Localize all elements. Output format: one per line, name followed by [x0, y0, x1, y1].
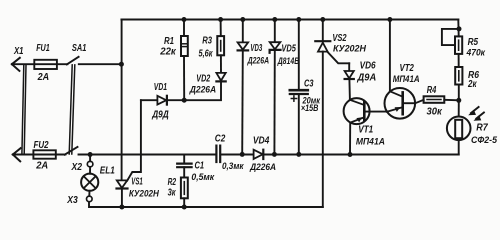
resistor R5 variable: [442, 20, 462, 54]
svg-text:VD6: VD6: [360, 61, 376, 72]
svg-text:VS1: VS1: [131, 176, 143, 187]
wire riser bottom rail to mid rail: [322, 154, 324, 207]
svg-text:5,6к: 5,6к: [199, 48, 214, 59]
transistor VT2: [385, 20, 424, 119]
wire cord pair left: [22, 65, 26, 154]
svg-text:×15В: ×15В: [301, 103, 319, 114]
wire mid rail left of C2: [13, 154, 66, 156]
svg-text:0,5мк: 0,5мк: [191, 172, 215, 183]
wire bottom rail: [89, 202, 323, 207]
thyristor VS1: [117, 180, 128, 207]
node R5 tap: [457, 26, 462, 31]
resistor R2: [181, 178, 188, 208]
svg-text:Х1: Х1: [13, 46, 24, 57]
svg-text:FU1: FU1: [36, 43, 50, 54]
svg-text:Д226А: Д226А: [189, 84, 217, 95]
svg-text:VS2: VS2: [332, 33, 347, 44]
wire mid rail after bottom switch: [79, 154, 216, 156]
connector X1 arrow: [12, 58, 20, 71]
node VD5 bottom: [272, 152, 277, 157]
svg-text:МП41А: МП41А: [356, 136, 385, 147]
svg-text:КУ202Н: КУ202Н: [333, 43, 367, 54]
svg-text:22к: 22к: [159, 47, 176, 58]
zener VD5: [270, 20, 281, 155]
svg-text:SA1: SA1: [72, 43, 87, 54]
node VD3 bottom: [240, 152, 245, 157]
wire top row after switch: [79, 63, 122, 65]
photoresistor R7: [447, 100, 484, 154]
svg-text:EL1: EL1: [100, 166, 115, 177]
svg-text:VD1: VD1: [154, 82, 167, 93]
wire mid rail right of C2: [221, 154, 459, 156]
capacitor C3: [290, 20, 308, 155]
connector X3 socket: [87, 196, 93, 202]
svg-text:VT1: VT1: [358, 124, 373, 135]
svg-text:VT2: VT2: [400, 63, 415, 74]
resistor R1: [181, 20, 188, 101]
lamp EL1: [81, 155, 98, 197]
svg-text:Д9Д: Д9Д: [151, 109, 168, 120]
node C3 bottom: [296, 152, 301, 157]
svg-text:2А: 2А: [35, 161, 48, 172]
diode VD3: [238, 20, 249, 155]
diode VD6: [345, 63, 354, 100]
diode VD2: [184, 73, 226, 100]
svg-text:3к: 3к: [168, 188, 177, 199]
svg-text:2А: 2А: [37, 72, 49, 83]
svg-text:С3: С3: [304, 79, 314, 90]
node VT2 collector top: [387, 17, 392, 22]
capacitor C2: [216, 146, 220, 162]
svg-text:R3: R3: [202, 36, 212, 47]
node R1 top: [182, 17, 187, 22]
svg-text:Д9А: Д9А: [357, 73, 377, 84]
svg-text:R4: R4: [427, 85, 437, 96]
node VD3 top: [240, 17, 245, 22]
svg-text:R7: R7: [476, 123, 488, 134]
svg-text:СФ2-5: СФ2-5: [471, 135, 498, 146]
wire top rail: [121, 19, 458, 21]
node VD1 R1: [182, 98, 187, 103]
svg-text:С2: С2: [215, 134, 226, 145]
svg-text:Х2: Х2: [71, 162, 83, 173]
thyristor VS2: [315, 20, 349, 155]
transistor VT1: [344, 98, 387, 154]
diode VD4: [254, 150, 264, 159]
svg-text:VD3: VD3: [250, 43, 262, 54]
switch SA1 top pole: [67, 57, 79, 65]
diode VD1: [141, 96, 184, 105]
svg-text:Х3: Х3: [66, 195, 78, 206]
svg-text:470к: 470к: [466, 48, 486, 59]
node VD5 top: [272, 17, 277, 22]
node SA1 frame: [119, 62, 124, 67]
resistor R6: [455, 54, 462, 100]
fuse FU1: [34, 60, 57, 69]
wire left frame vertical: [121, 20, 123, 181]
connector X2 socket: [87, 161, 93, 167]
resistor R4: [424, 96, 459, 103]
svg-text:R5: R5: [468, 37, 479, 48]
svg-text:2к: 2к: [467, 79, 477, 90]
svg-text:С1: С1: [195, 161, 205, 172]
connector X2 arrow: [13, 148, 21, 161]
svg-text:Д226А: Д226А: [249, 162, 276, 173]
svg-text:0,3мк: 0,3мк: [222, 161, 245, 172]
svg-text:R2: R2: [168, 177, 177, 188]
node C3 top: [296, 17, 301, 22]
svg-text:R1: R1: [164, 36, 174, 47]
wire top mains row: [12, 63, 68, 65]
node R2 bottom: [182, 205, 187, 210]
svg-text:VD5: VD5: [281, 43, 296, 54]
wire VD1 to VS1 gate: [127, 100, 141, 180]
node dots: [88, 17, 462, 210]
fuse FU2: [33, 150, 55, 158]
svg-text:VD4: VD4: [253, 135, 270, 146]
svg-text:Д226А: Д226А: [247, 55, 269, 66]
node R4 R6 R7: [456, 98, 461, 103]
svg-text:МП41А: МП41А: [393, 74, 420, 85]
svg-text:КУ202Н: КУ202Н: [129, 188, 160, 199]
wire cord pair right (SA1 link): [69, 65, 75, 154]
node R3 top: [218, 17, 223, 22]
node VS2 top: [320, 17, 325, 22]
switch SA1 bottom pole: [65, 147, 78, 155]
svg-text:FU2: FU2: [34, 140, 49, 151]
node VT1 emitter bottom: [348, 152, 353, 157]
svg-text:Д814В: Д814В: [277, 56, 299, 67]
node EL1 top: [88, 152, 93, 157]
svg-text:30к: 30к: [427, 107, 443, 118]
resistor R3: [217, 20, 224, 73]
capacitor C1: [177, 155, 191, 178]
node VS1 cathode: [119, 205, 124, 210]
svg-text:VD2: VD2: [196, 73, 210, 84]
